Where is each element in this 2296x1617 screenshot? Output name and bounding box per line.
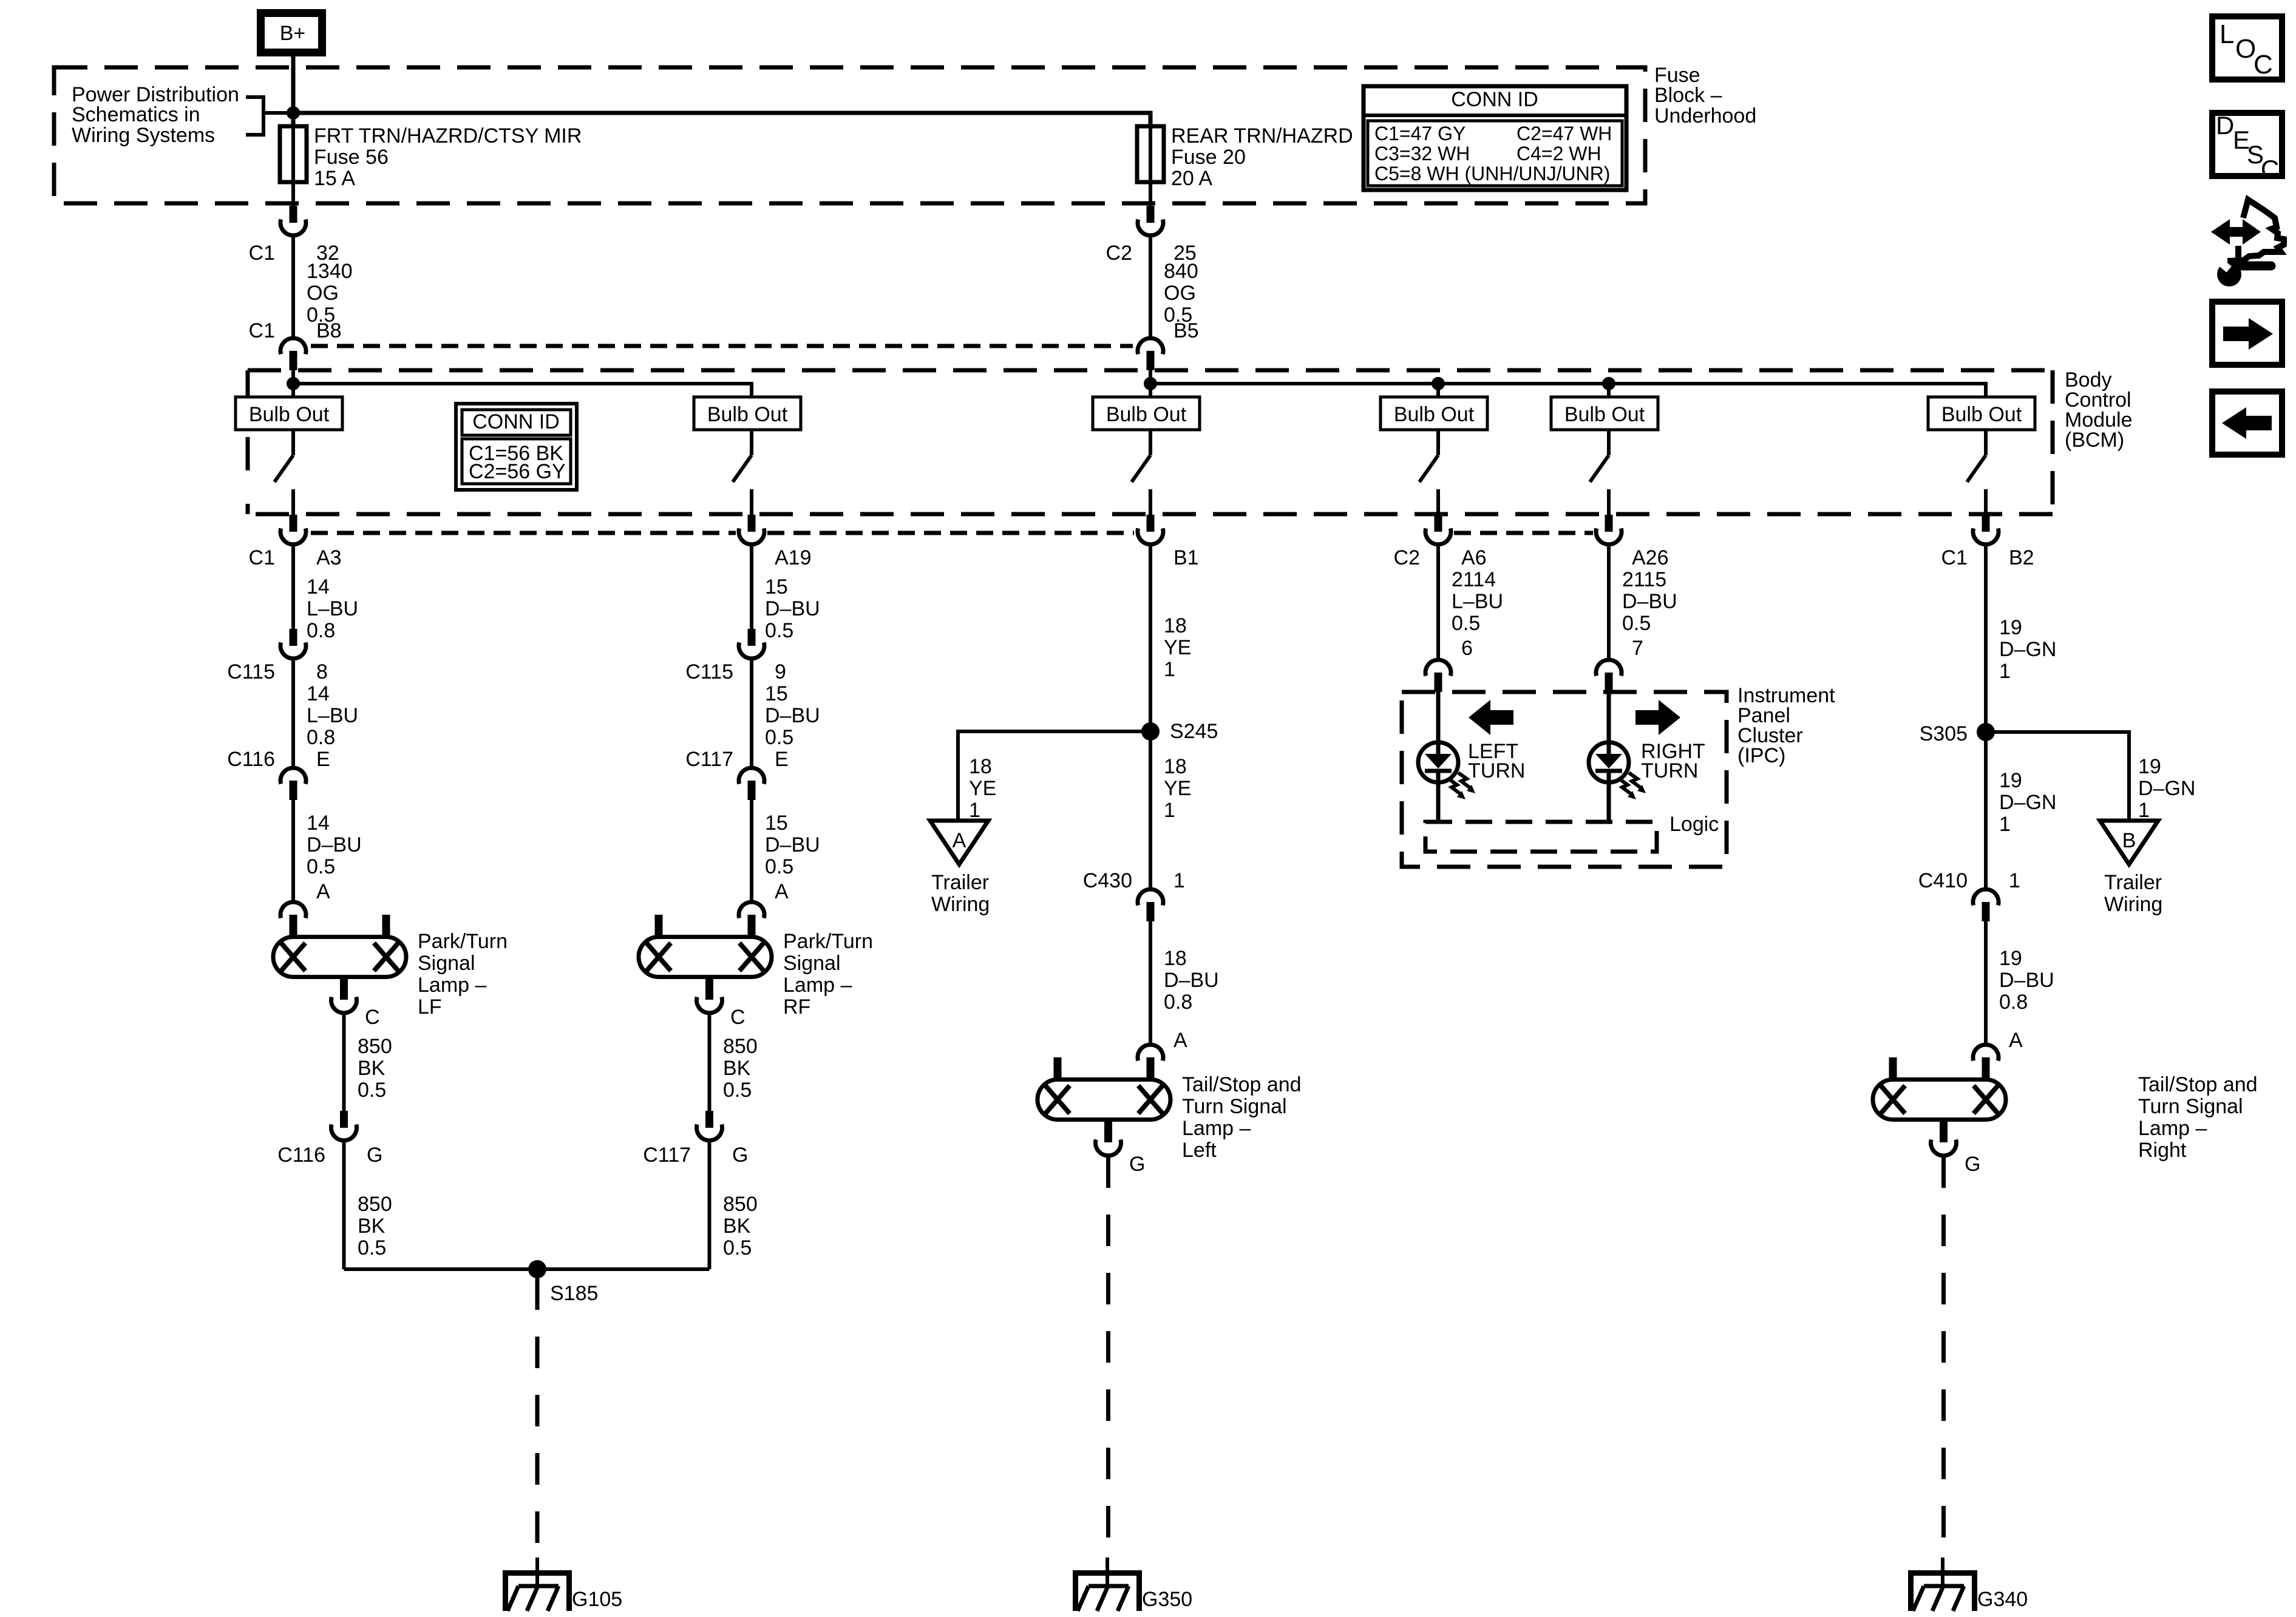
wire LED to logic [1607, 782, 1611, 822]
svg-text:Trailer: Trailer [931, 871, 989, 894]
svg-text:D–BU: D–BU [765, 597, 820, 620]
svg-text:D–BU: D–BU [1164, 969, 1219, 992]
connector lamp RF pin A [739, 902, 764, 936]
svg-text:A: A [775, 880, 789, 903]
bus junction node [1602, 377, 1615, 390]
wire 850 BK 0.5 to S185 [708, 1141, 712, 1269]
label S245 [1170, 720, 1218, 743]
BCM output switch [1967, 430, 1986, 515]
svg-text:Bulb Out: Bulb Out [1564, 403, 1645, 426]
connector pin A3 (BCM output) [280, 515, 306, 544]
svg-text:14: 14 [307, 575, 330, 598]
BCM Bulb Out driver box [1551, 397, 1658, 430]
svg-text:G: G [1965, 1153, 1980, 1176]
svg-text:CONN ID: CONN ID [1451, 88, 1538, 111]
label C1 / B8 [249, 319, 342, 342]
off-page connector A to Trailer Wiring [930, 821, 988, 864]
svg-text:A19: A19 [775, 546, 812, 569]
svg-text:C2=56 GY: C2=56 GY [469, 460, 566, 483]
svg-text:A: A [1173, 1029, 1187, 1052]
label pin A [1173, 1029, 1187, 1052]
label Park/Turn Signal Lamp - RF [783, 930, 873, 1019]
svg-text:C116: C116 [227, 748, 275, 771]
svg-text:Fuse 56: Fuse 56 [314, 146, 389, 169]
connector pin B1 (BCM output) [1138, 515, 1163, 544]
connector lamp left pin A [1138, 1045, 1163, 1079]
lamp Tail/Stop and Turn Signal Lamp - Right [1873, 1057, 2006, 1120]
svg-text:1: 1 [1999, 660, 2011, 683]
svg-text:Fuse 20: Fuse 20 [1171, 146, 1246, 169]
svg-text:E: E [775, 748, 789, 771]
fuse block CONN ID table [1364, 86, 1626, 190]
right turn direction arrow [1635, 700, 1680, 735]
svg-text:1: 1 [2138, 799, 2150, 822]
lamp Park/Turn Signal Lamp - LF [273, 915, 406, 977]
lamp Park/Turn Signal Lamp - RF [639, 915, 772, 977]
connector C116 pin G [331, 1111, 357, 1141]
label circuit 18 YE 1 (trailer) [969, 755, 996, 822]
label circuit 15 D-BU 0.5 [765, 682, 820, 749]
connector pin A6 (BCM output) [1425, 515, 1451, 544]
wire S305 to C410 [1984, 732, 1988, 889]
svg-text:D–BU: D–BU [1622, 590, 1677, 613]
BCM output switch [274, 430, 293, 515]
svg-text:B2: B2 [2009, 546, 2034, 569]
svg-text:D–GN: D–GN [1999, 791, 2056, 814]
wire A19 to C115 [750, 545, 753, 630]
connector C1 pin B8 (BCM) [280, 338, 306, 370]
connector lamp LF pin C [331, 977, 357, 1013]
svg-text:C430: C430 [1083, 869, 1132, 892]
indicator LED RIGHT TURN [1589, 742, 1629, 782]
BCM internal bus B [1150, 384, 1986, 397]
svg-text:2115: 2115 [1622, 568, 1666, 591]
svg-text:Signal: Signal [783, 952, 841, 975]
svg-text:TURN: TURN [1468, 759, 1525, 782]
label Power Distribution Schematics in Wiring Systems [72, 83, 239, 147]
svg-text:1: 1 [969, 799, 980, 822]
label circuit 2114 L–BU 0.5 [1452, 568, 1503, 635]
wire fuse56 down [291, 182, 295, 207]
label pin A [316, 880, 330, 903]
connector lamp LF pin A [280, 902, 306, 936]
connector IPC pin 6 [1425, 660, 1451, 692]
svg-text:OG: OG [1164, 282, 1196, 305]
svg-text:14: 14 [307, 812, 330, 835]
svg-text:D: D [2216, 111, 2234, 140]
label circuit 18 D-BU 0.8 [1164, 947, 1219, 1014]
connector lamp RF pin C [697, 977, 722, 1013]
wire 15 D-BU 0.5 [750, 800, 753, 901]
ground G350 [1073, 1558, 1142, 1611]
svg-text:RF: RF [783, 995, 810, 1019]
fuse block dashed box (Fuse Block - Underhood) [54, 67, 1645, 203]
BCM internal bus A [293, 384, 752, 397]
connector C2 pin B5 (BCM) [1138, 338, 1163, 370]
bus junction node [287, 377, 300, 390]
splice S245 [1141, 722, 1160, 741]
BCM Bulb Out driver box [1928, 397, 2035, 430]
svg-text:0.5: 0.5 [307, 855, 335, 878]
svg-text:840: 840 [1164, 260, 1198, 283]
svg-text:D–GN: D–GN [2138, 777, 2195, 800]
label C410 / 1 [1918, 869, 2020, 892]
svg-text:1: 1 [1164, 799, 1175, 822]
label C116 / G [277, 1144, 382, 1167]
label C430 / 1 [1083, 869, 1185, 892]
svg-text:0.5: 0.5 [358, 1079, 386, 1102]
wire 14 D-BU 0.5 [291, 800, 295, 901]
svg-text:C115: C115 [685, 660, 733, 683]
wire B+ to junction [291, 55, 296, 126]
svg-text:850: 850 [358, 1193, 392, 1216]
svg-text:15: 15 [765, 812, 788, 835]
svg-text:Park/Turn: Park/Turn [783, 930, 873, 953]
label B1 [1173, 546, 1199, 569]
svg-text:Tail/Stop and: Tail/Stop and [1182, 1073, 1302, 1096]
wire 1340 OG 0.5 [291, 236, 295, 337]
wire S245 to trailer branch [958, 731, 1150, 821]
svg-text:BK: BK [723, 1215, 751, 1238]
label Trailer Wiring [931, 871, 990, 916]
adjust/repair hand-wrench icon [2211, 200, 2284, 286]
svg-text:1: 1 [1164, 658, 1175, 681]
svg-text:0.5: 0.5 [1622, 612, 1651, 635]
svg-text:Tail/Stop and: Tail/Stop and [2138, 1073, 2258, 1096]
label circuit 19 D-BU 0.8 [1999, 947, 2054, 1014]
wire 850 BK 0.5 [342, 1014, 346, 1112]
wire B2 to S305 [1984, 545, 1988, 732]
label C1 B2 [1941, 546, 2034, 569]
label Park/Turn Signal Lamp - LF [418, 930, 508, 1019]
forward navigation arrow icon [2212, 302, 2282, 365]
label circuit 1340 OG 0.5 [307, 260, 353, 327]
connector C115 pin 8 [280, 629, 306, 659]
svg-text:S185: S185 [550, 1282, 598, 1305]
svg-text:18: 18 [969, 755, 992, 778]
wire A6 to IPC [1436, 545, 1440, 659]
svg-text:D–BU: D–BU [307, 833, 362, 856]
wire 19 D-BU 0.8 [1984, 921, 1988, 1044]
svg-text:A: A [953, 829, 966, 852]
svg-text:C2: C2 [1106, 242, 1132, 265]
svg-text:Bulb Out: Bulb Out [1941, 403, 2022, 426]
connector lamp right pin G [1931, 1120, 1957, 1156]
svg-text:C1: C1 [249, 319, 275, 342]
battery feed terminal B+ [261, 13, 322, 53]
connector C115 pin 9 [739, 629, 764, 659]
svg-text:A26: A26 [1632, 546, 1669, 569]
svg-text:0.5: 0.5 [1452, 612, 1480, 635]
svg-text:1: 1 [1999, 813, 2011, 836]
wire LED to logic [1436, 782, 1441, 822]
svg-text:19: 19 [1999, 769, 2022, 792]
svg-text:A3: A3 [316, 546, 342, 569]
connector C430 pin 1 [1138, 889, 1163, 921]
ground G105 [503, 1558, 572, 1611]
label circuit 15 D-BU 0.5 [765, 812, 820, 878]
svg-text:REAR TRN/HAZRD: REAR TRN/HAZRD [1171, 124, 1353, 147]
connector C1 pin 32 (fuse block) [280, 206, 306, 236]
svg-text:Turn Signal: Turn Signal [2138, 1095, 2243, 1118]
svg-text:D–BU: D–BU [765, 833, 820, 856]
lamp Tail/Stop and Turn Signal Lamp - Left [1038, 1057, 1170, 1120]
svg-text:G: G [367, 1144, 382, 1167]
label LEFT TURN [1468, 740, 1525, 782]
label G350 [1142, 1588, 1192, 1611]
svg-text:C: C [730, 1006, 746, 1029]
svg-text:L–BU: L–BU [307, 704, 358, 727]
wire A3 to C115 [291, 545, 295, 630]
label S305 [1920, 722, 1968, 745]
reference bracket [246, 95, 293, 137]
wire IPC pin to indicator LED [1607, 692, 1611, 744]
svg-text:850: 850 [723, 1035, 758, 1058]
svg-text:Bulb Out: Bulb Out [1106, 403, 1187, 426]
label circuit 19 D-GN 1 [1999, 769, 2056, 836]
label circuit 19 D-GN 1 (trailer) [2138, 755, 2195, 822]
svg-text:0.5: 0.5 [358, 1236, 386, 1259]
label circuit 850 BK 0.5 [358, 1035, 392, 1102]
wire S305 to trailer branch [1986, 732, 2129, 821]
svg-text:A: A [2009, 1029, 2023, 1052]
svg-text:A: A [316, 880, 330, 903]
indicator LED LEFT TURN [1418, 742, 1458, 782]
label C117 / G [643, 1144, 748, 1167]
svg-text:Right: Right [2138, 1139, 2187, 1162]
svg-text:G105: G105 [572, 1588, 622, 1611]
svg-text:850: 850 [723, 1193, 758, 1216]
ground wire S185 to G105 [535, 1278, 540, 1560]
svg-text:Left: Left [1182, 1139, 1217, 1162]
label pin A [2009, 1029, 2023, 1052]
label circuit 14 L-BU 0.8 [307, 575, 358, 642]
LED illumination arrows [1449, 773, 1475, 799]
svg-text:15 A: 15 A [314, 167, 355, 190]
LED illumination arrows [1619, 773, 1646, 799]
connector pin A26 (BCM output) [1596, 515, 1622, 544]
label G340 [1977, 1588, 2028, 1611]
BCM Bulb Out driver box [694, 397, 801, 430]
svg-text:L–BU: L–BU [307, 597, 358, 620]
IPC Logic dashed box [1425, 822, 1657, 852]
label pin 7 [1632, 637, 1643, 660]
svg-text:B8: B8 [316, 319, 342, 342]
svg-text:D–BU: D–BU [1999, 969, 2054, 992]
label Instrument Panel Cluster (IPC) [1737, 684, 1835, 767]
svg-text:S245: S245 [1170, 720, 1218, 743]
back navigation arrow icon [2212, 392, 2282, 455]
svg-text:A6: A6 [1461, 546, 1487, 569]
wire bus to rear fuse [293, 113, 1150, 126]
label Body Control Module (BCM) [2065, 368, 2133, 452]
svg-text:C3=32 WH: C3=32 WH [1374, 143, 1470, 164]
connector C116 pin E [280, 768, 306, 800]
svg-text:C117: C117 [643, 1144, 691, 1167]
svg-text:C5=8 WH (UNH/UNJ/UNR): C5=8 WH (UNH/UNJ/UNR) [1374, 163, 1610, 185]
LOC navigation icon [2212, 16, 2282, 80]
svg-text:Bulb Out: Bulb Out [707, 403, 788, 426]
svg-text:C4=2 WH: C4=2 WH [1517, 143, 1601, 164]
label circuit 19 D-GN 1 [1999, 616, 2056, 683]
ground G340 [1908, 1558, 1977, 1611]
label C117 / E [685, 748, 788, 771]
label fuse 20 [1171, 124, 1353, 190]
svg-text:G350: G350 [1142, 1588, 1192, 1611]
label circuit 850 BK 0.5 [358, 1193, 392, 1259]
svg-text:C: C [365, 1006, 380, 1029]
label pin G [1129, 1153, 1145, 1176]
label circuit 18 YE 1 [1164, 614, 1191, 681]
label G105 [572, 1588, 622, 1611]
BCM output switch [733, 430, 752, 515]
svg-text:C2=47 WH: C2=47 WH [1517, 123, 1612, 144]
svg-text:0.8: 0.8 [1999, 991, 2028, 1014]
wire bus into driver 4 [1436, 384, 1440, 397]
svg-text:C1: C1 [249, 242, 275, 265]
svg-text:14: 14 [307, 682, 330, 705]
connector C410 pin 1 [1973, 889, 1999, 921]
svg-text:0.8: 0.8 [307, 726, 335, 749]
svg-text:Signal: Signal [418, 952, 475, 975]
BCM output switch [1132, 430, 1150, 515]
label A19 [775, 546, 812, 569]
svg-text:19: 19 [1999, 616, 2022, 639]
label pin 6 [1461, 637, 1473, 660]
svg-text:B5: B5 [1173, 319, 1199, 342]
wire IPC pin to indicator LED [1436, 692, 1441, 744]
svg-text:C410: C410 [1918, 869, 1968, 892]
connector C117 pin G [697, 1111, 722, 1141]
svg-text:Park/Turn: Park/Turn [418, 930, 508, 953]
svg-text:6: 6 [1461, 637, 1473, 660]
connector IPC pin 7 [1596, 660, 1622, 692]
svg-text:C1=47 GY: C1=47 GY [1374, 123, 1466, 144]
wire 850 BK 0.5 [708, 1014, 712, 1112]
label fuse 56 [314, 124, 582, 190]
svg-text:0.5: 0.5 [765, 855, 793, 878]
svg-text:Wiring: Wiring [931, 893, 990, 916]
svg-text:19: 19 [2138, 755, 2161, 778]
BCM output switch [1590, 430, 1609, 515]
connector lamp right pin A [1973, 1045, 1999, 1079]
wire bus into driver 1 [291, 370, 295, 397]
svg-text:FRT TRN/HAZRD/CTSY MIR: FRT TRN/HAZRD/CTSY MIR [314, 124, 582, 147]
svg-text:Lamp –: Lamp – [783, 974, 852, 997]
wire 14 L-BU 0.8 [291, 659, 295, 767]
label C1 A3 [249, 546, 342, 569]
svg-text:L–BU: L–BU [1452, 590, 1503, 613]
splice S185 [528, 1260, 546, 1278]
svg-text:BK: BK [723, 1057, 751, 1080]
svg-text:18: 18 [1164, 614, 1187, 637]
svg-text:B1: B1 [1173, 546, 1199, 569]
label Tail/Stop and Turn Signal Lamp - Right [2138, 1073, 2258, 1162]
splice S305 [1977, 723, 1995, 741]
label circuit 840 OG 0.5 [1164, 260, 1198, 327]
svg-text:L: L [2220, 19, 2234, 49]
label pin C [365, 1006, 380, 1029]
wire bus into driver 5 [1607, 384, 1611, 397]
label C2 / 25 [1106, 242, 1197, 265]
svg-text:18: 18 [1164, 755, 1187, 778]
label C1 / 32 [249, 242, 339, 265]
label RIGHT TURN [1641, 740, 1705, 782]
label C115 / 8 [227, 660, 328, 683]
label circuit 15 D-BU 0.5 [765, 575, 820, 642]
svg-text:G340: G340 [1977, 1588, 2028, 1611]
svg-text:Wiring Systems: Wiring Systems [72, 124, 215, 147]
left turn direction arrow [1469, 700, 1513, 735]
label circuit 14 L-BU 0.8 [307, 682, 358, 749]
svg-text:0.5: 0.5 [723, 1079, 752, 1102]
svg-text:S305: S305 [1920, 722, 1968, 745]
svg-text:(IPC): (IPC) [1737, 744, 1785, 767]
svg-text:Turn Signal: Turn Signal [1182, 1095, 1287, 1118]
wire S245 to C430 [1149, 731, 1152, 889]
svg-text:18: 18 [1164, 947, 1187, 970]
svg-text:1340: 1340 [307, 260, 353, 283]
label A26 [1632, 546, 1669, 569]
svg-text:CONN ID: CONN ID [472, 410, 560, 433]
svg-text:G: G [732, 1144, 748, 1167]
Body Control Module dashed box [248, 370, 2053, 514]
label S185 [550, 1282, 598, 1305]
svg-text:C116: C116 [277, 1144, 325, 1167]
connector tie line A6-A26 [1454, 531, 1593, 535]
svg-text:YE: YE [1164, 636, 1191, 659]
wire 18 D-BU 0.8 [1149, 921, 1152, 1044]
svg-text:Logic: Logic [1669, 813, 1719, 836]
svg-text:C1: C1 [249, 546, 275, 569]
connector C2 pin 25 (fuse block) [1138, 206, 1163, 236]
label circuit 18 YE 1 [1164, 755, 1191, 822]
label Tail/Stop and Turn Signal Lamp - Left [1182, 1073, 1302, 1162]
wire 15 D-BU 0.5 [750, 659, 753, 767]
label B5 [1173, 319, 1199, 342]
svg-text:0.8: 0.8 [307, 619, 335, 642]
svg-text:YE: YE [969, 777, 996, 800]
BCM Bulb Out driver box [1093, 397, 1200, 430]
svg-text:D–GN: D–GN [1999, 638, 2056, 661]
wire A26 to IPC [1607, 545, 1611, 659]
svg-text:Underhood: Underhood [1654, 104, 1756, 127]
svg-text:Schematics in: Schematics in [72, 103, 200, 126]
wire 850 BK 0.5 to S185 [342, 1141, 346, 1269]
svg-text:20 A: 20 A [1171, 167, 1212, 190]
Instrument Panel Cluster dashed box [1402, 692, 1727, 867]
connector pin A19 (BCM output) [739, 515, 764, 544]
svg-text:Trailer: Trailer [2104, 871, 2162, 894]
label C2 A6 [1394, 546, 1487, 569]
svg-text:C117: C117 [685, 748, 733, 771]
label Logic [1669, 813, 1719, 836]
bus junction node [1432, 377, 1445, 390]
svg-text:15: 15 [765, 575, 788, 598]
svg-text:0.8: 0.8 [1164, 991, 1192, 1014]
svg-text:YE: YE [1164, 777, 1191, 800]
label C116 / E [227, 748, 330, 771]
DESC navigation icon [2212, 111, 2282, 183]
svg-text:2114: 2114 [1452, 568, 1496, 591]
svg-text:8: 8 [316, 660, 328, 683]
connector pin B2 (BCM output) [1973, 515, 1999, 544]
ground wire to G340 [1941, 1156, 1946, 1560]
svg-text:G: G [1129, 1153, 1145, 1176]
wire to splice S185 [344, 1267, 710, 1271]
svg-text:C1: C1 [1941, 546, 1968, 569]
svg-text:E: E [316, 748, 330, 771]
